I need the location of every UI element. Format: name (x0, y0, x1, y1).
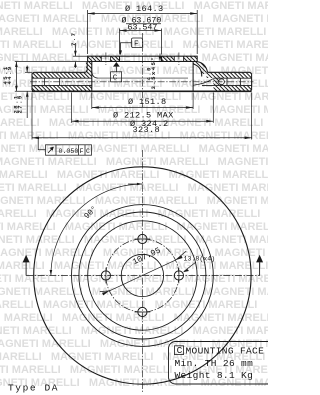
svg-text:44.9: 44.9 (6, 65, 13, 84)
svg-text:MOUNTING FACE: MOUNTING FACE (186, 346, 265, 357)
svg-text:Min. TH 26 mm: Min. TH 26 mm (175, 358, 254, 369)
svg-text:C: C (113, 75, 118, 83)
svg-text:7.7: 7.7 (70, 32, 77, 46)
svg-text:0.050: 0.050 (59, 148, 79, 155)
svg-text:3.5x45°: 3.5x45° (150, 56, 157, 90)
svg-text:C: C (86, 148, 90, 155)
svg-text:Type DA: Type DA (8, 383, 59, 394)
svg-text:27.9: 27.9 (17, 94, 24, 113)
svg-text:13.8(x4): 13.8(x4) (184, 256, 216, 263)
svg-text:Ø 164.3: Ø 164.3 (125, 4, 164, 14)
svg-text:Ø 151.8: Ø 151.8 (128, 97, 167, 107)
svg-text:63.547: 63.547 (128, 23, 158, 32)
svg-text:C: C (177, 345, 183, 356)
svg-text:323.8: 323.8 (133, 125, 161, 135)
svg-text:F: F (134, 40, 139, 48)
svg-text:F: F (80, 148, 84, 155)
svg-text:Weight 8.1 Kg: Weight 8.1 Kg (175, 370, 254, 381)
